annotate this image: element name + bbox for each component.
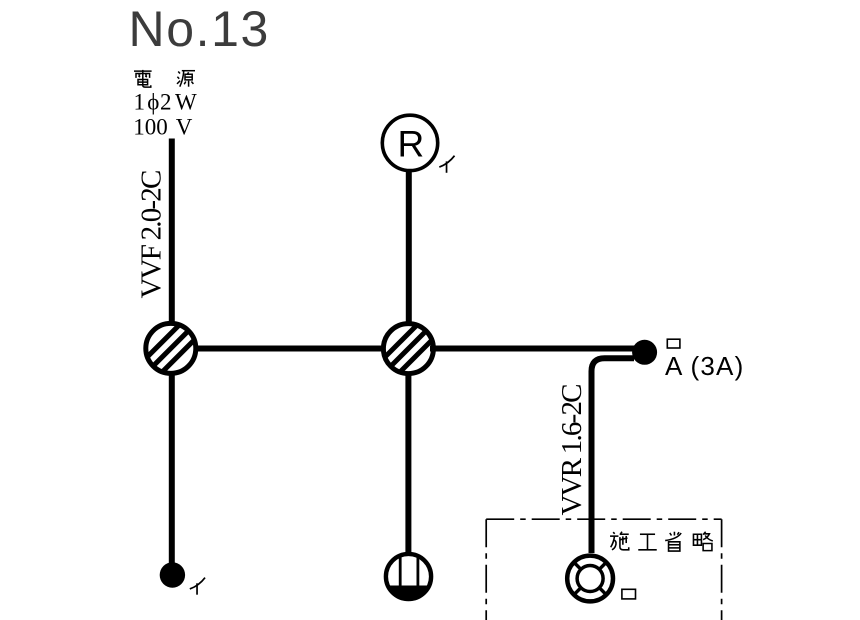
wire J2 to automatic switch A — [430, 346, 640, 352]
single-pole switch dot イ — [160, 562, 185, 587]
power source label 源 — [177, 71, 195, 87]
label ロ at switch A — [667, 339, 680, 348]
svg-text:1ϕ2W: 1ϕ2W — [134, 89, 198, 114]
svg-text:No.13: No.13 — [129, 1, 270, 57]
junction box J1 — [131, 293, 211, 403]
wire R to J2 — [406, 169, 412, 324]
svg-text:A (3A): A (3A) — [665, 351, 744, 381]
dash-dot box (work omitted area) — [486, 519, 721, 620]
note 施 — [610, 532, 629, 550]
lamp receptacle (ceiling) in omitted area — [567, 556, 613, 602]
lamp receptacle R — [382, 115, 437, 170]
svg-text:VVR 1.6-2C: VVR 1.6-2C — [556, 385, 588, 516]
note 省 — [665, 532, 681, 551]
wire J2 down to ceiling fixture — [405, 373, 411, 553]
power source label 電 — [134, 70, 152, 87]
branch wire with elbow to receptacle — [592, 358, 635, 553]
label イ at R — [439, 156, 454, 173]
wire J1 to J2 (horizontal) — [194, 346, 386, 352]
wire J1 down to switch イ — [169, 373, 175, 566]
feeder wire from source (vertical) — [169, 139, 175, 325]
ceiling fixture (circle with bars, filled base) — [386, 554, 432, 601]
label ロ at receptacle — [622, 589, 636, 599]
label イ at switch — [190, 578, 205, 595]
svg-text:VVF 2.0-2C: VVF 2.0-2C — [136, 171, 168, 298]
note 略 — [693, 532, 712, 551]
svg-text:R: R — [398, 124, 425, 165]
automatic switch dot A(3A) — [632, 340, 657, 365]
note 工 — [638, 534, 656, 550]
svg-text:100V: 100V — [133, 114, 193, 139]
junction box J2 — [368, 294, 448, 404]
